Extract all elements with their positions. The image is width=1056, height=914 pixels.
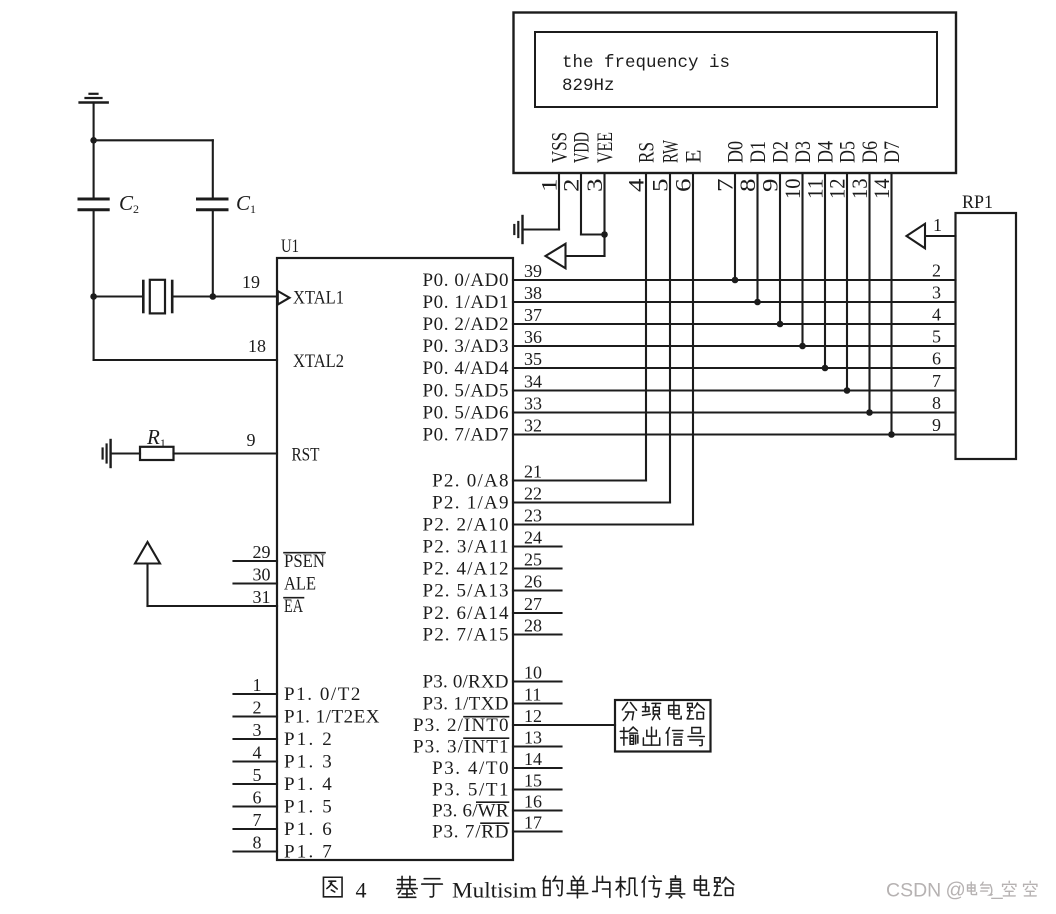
svg-text:9: 9 [247,430,256,450]
svg-text:10: 10 [524,663,542,683]
svg-text:P2. 2/A10: P2. 2/A10 [423,514,509,535]
svg-text:P2. 3/A11: P2. 3/A11 [423,536,509,557]
svg-text:26: 26 [524,572,542,592]
svg-text:22: 22 [524,484,542,504]
svg-text:14: 14 [524,749,542,769]
svg-text:11: 11 [524,685,541,705]
svg-text:P1. 7: P1. 7 [284,841,332,862]
svg-text:1: 1 [253,675,262,695]
svg-text:P1. 2: P1. 2 [284,729,332,750]
svg-text:P3. 3/INT1: P3. 3/INT1 [413,736,509,757]
svg-text:21: 21 [524,462,542,482]
svg-text:36: 36 [524,327,542,347]
svg-text:4: 4 [624,179,649,193]
svg-text:P0. 7/AD7: P0. 7/AD7 [423,424,509,445]
svg-text:PSEN: PSEN [284,551,325,572]
svg-text:8: 8 [735,179,760,193]
svg-text:P2. 4/A12: P2. 4/A12 [423,558,509,579]
svg-text:12: 12 [524,706,542,726]
svg-text:P1. 0/T2: P1. 0/T2 [284,684,360,705]
svg-text:2: 2 [932,261,941,281]
svg-text:@: @ [946,880,966,902]
svg-text:7: 7 [253,810,262,830]
svg-text:13: 13 [524,728,542,748]
svg-text:D1: D1 [745,141,770,163]
svg-text:P0. 3/AD3: P0. 3/AD3 [423,336,509,357]
svg-text:P2. 5/A13: P2. 5/A13 [423,580,509,601]
svg-text:P1. 4: P1. 4 [284,774,332,795]
svg-text:VEE: VEE [592,132,617,163]
svg-text:10: 10 [780,179,805,200]
svg-text:3: 3 [932,283,941,303]
svg-text:P0. 0/AD0: P0. 0/AD0 [423,270,509,291]
svg-text:CSDN: CSDN [886,880,941,902]
svg-text:9: 9 [932,415,941,435]
svg-text:2: 2 [559,179,584,193]
svg-text:P1. 6: P1. 6 [284,819,332,840]
svg-text:7: 7 [932,371,941,391]
svg-text:Multisim: Multisim [452,878,537,903]
svg-text:P1. 1/T2EX: P1. 1/T2EX [284,706,380,727]
svg-text:25: 25 [524,550,542,570]
svg-text:P2. 6/A14: P2. 6/A14 [423,603,510,624]
svg-text:829Hz: 829Hz [562,76,615,96]
svg-text:37: 37 [524,305,542,325]
svg-text:15: 15 [524,771,542,791]
svg-text:19: 19 [242,272,260,292]
svg-text:ALE: ALE [284,573,316,594]
svg-text:P3. 5/T1: P3. 5/T1 [432,779,508,800]
svg-text:P0. 2/AD2: P0. 2/AD2 [423,314,509,335]
svg-text:P2. 0/A8: P2. 0/A8 [432,470,508,491]
svg-text:29: 29 [253,542,271,562]
svg-text:4: 4 [932,305,941,325]
svg-text:24: 24 [524,528,542,548]
svg-text:P0. 1/AD1: P0. 1/AD1 [423,292,509,313]
svg-text:5: 5 [648,179,673,193]
svg-text:38: 38 [524,283,542,303]
svg-text:EA: EA [284,596,303,617]
svg-text:the frequency is: the frequency is [562,53,730,73]
svg-text:6: 6 [932,349,941,369]
svg-text:P3. 2/INT0: P3. 2/INT0 [413,715,509,736]
svg-text:P0. 5/AD6: P0. 5/AD6 [423,402,509,423]
svg-text:RW: RW [658,140,683,163]
svg-text:P3. 0/RXD: P3. 0/RXD [423,671,509,692]
svg-text:3: 3 [582,179,607,193]
svg-text:35: 35 [524,349,542,369]
svg-text:D0: D0 [723,141,748,163]
svg-text:4: 4 [356,878,367,903]
svg-text:34: 34 [524,372,542,392]
svg-text:P1. 5: P1. 5 [284,796,332,817]
svg-text:1: 1 [933,215,942,235]
svg-text:28: 28 [524,616,542,636]
svg-text:VDD: VDD [569,132,594,163]
svg-text:XTAL2: XTAL2 [293,351,344,372]
svg-text:16: 16 [524,792,542,812]
svg-text:39: 39 [524,261,542,281]
svg-text:27: 27 [524,594,542,614]
svg-text:E: E [681,150,706,163]
svg-text:D3: D3 [790,141,815,163]
svg-text:P0. 5/AD5: P0. 5/AD5 [423,380,509,401]
svg-text:6: 6 [671,179,696,193]
svg-text:8: 8 [932,393,941,413]
svg-text:D7: D7 [879,141,904,163]
svg-text:RS: RS [634,142,659,163]
svg-text:5: 5 [932,327,941,347]
svg-text:U1: U1 [281,236,299,257]
svg-text:XTAL1: XTAL1 [293,288,344,309]
svg-text:RST: RST [292,445,320,466]
svg-text:P3. 7/RD: P3. 7/RD [432,821,508,842]
svg-text:P2. 1/A9: P2. 1/A9 [432,492,508,513]
svg-text:6: 6 [253,788,262,808]
svg-text:33: 33 [524,394,542,414]
svg-text:P3. 4/T0: P3. 4/T0 [432,758,508,779]
svg-text:2: 2 [253,698,262,718]
svg-text:18: 18 [248,336,266,356]
svg-text:14: 14 [869,179,894,200]
svg-text:P0. 4/AD4: P0. 4/AD4 [423,358,510,379]
svg-text:_: _ [991,878,1004,900]
svg-text:5: 5 [253,765,262,785]
svg-text:D2: D2 [768,141,793,163]
svg-text:30: 30 [253,565,271,585]
svg-text:7: 7 [713,179,738,193]
svg-text:32: 32 [524,416,542,436]
svg-text:P3. 6/WR: P3. 6/WR [432,800,509,821]
svg-text:9: 9 [758,179,783,193]
svg-text:4: 4 [253,743,262,763]
svg-text:D5: D5 [835,141,860,163]
svg-text:P2. 7/A15: P2. 7/A15 [423,624,509,645]
svg-text:23: 23 [524,506,542,526]
svg-text:17: 17 [524,813,542,833]
svg-text:31: 31 [253,587,271,607]
svg-text:12: 12 [825,179,850,200]
svg-text:RP1: RP1 [962,192,993,213]
svg-text:3: 3 [253,720,262,740]
svg-text:P3. 1/TXD: P3. 1/TXD [423,693,509,714]
svg-text:P1. 3: P1. 3 [284,751,332,772]
svg-text:8: 8 [253,833,262,853]
